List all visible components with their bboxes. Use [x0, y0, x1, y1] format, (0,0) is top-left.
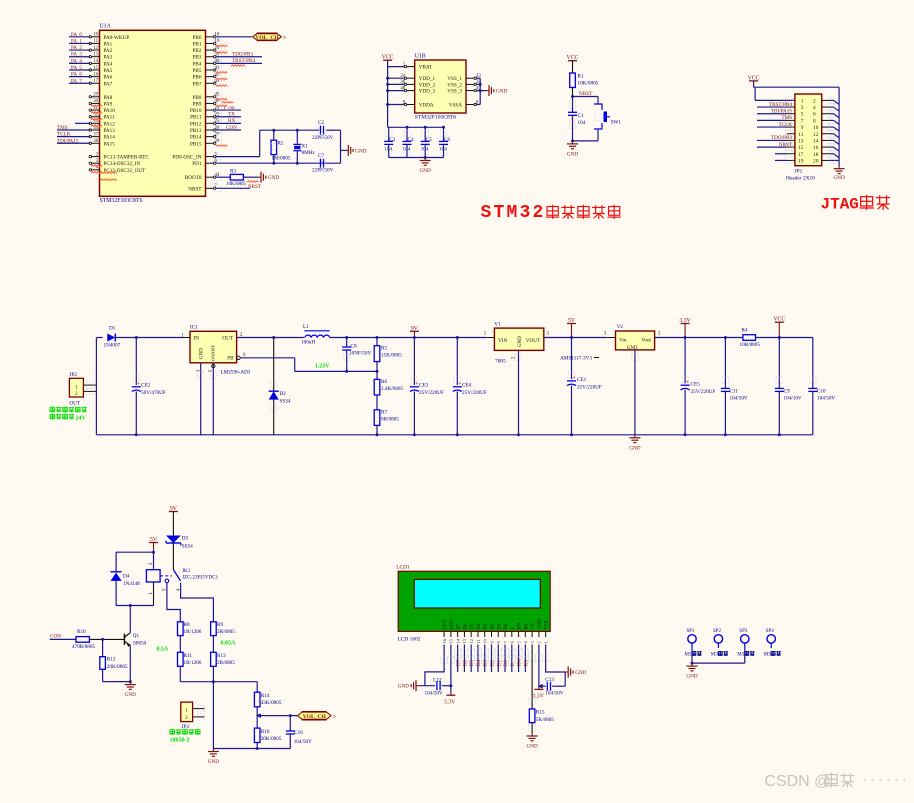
svg-text:10K/0805: 10K/0805: [226, 182, 247, 187]
svg-text:PB15: PB15: [190, 141, 202, 147]
svg-text:38: 38: [93, 139, 98, 144]
svg-text:R13: R13: [217, 653, 226, 659]
svg-text:GND: GND: [355, 148, 366, 154]
svg-text:STM32F103C8T6: STM32F103C8T6: [100, 198, 143, 204]
svg-text:104: 104: [578, 120, 586, 126]
svg-text:L1: L1: [303, 324, 309, 330]
svg-text:Vout: Vout: [641, 338, 651, 344]
svg-text:SS54: SS54: [182, 544, 193, 550]
svg-text:25V/220UF: 25V/220UF: [419, 390, 444, 396]
svg-text:TDI/PA15: TDI/PA15: [57, 138, 79, 144]
svg-text:13: 13: [798, 138, 804, 144]
svg-text:GND: GND: [208, 759, 219, 765]
svg-text:104: 104: [384, 147, 392, 153]
svg-text:10NF/50V: 10NF/50V: [349, 351, 371, 357]
svg-text:VCC: VCC: [773, 317, 785, 323]
svg-text:10: 10: [813, 125, 819, 131]
svg-text:25V/220UF: 25V/220UF: [462, 390, 487, 396]
svg-text:14: 14: [813, 138, 819, 144]
svg-text:LCD1: LCD1: [396, 565, 410, 571]
svg-text:GND: GND: [518, 336, 523, 347]
svg-text:SP4: SP4: [766, 629, 775, 634]
svg-text:PA3: PA3: [104, 55, 113, 61]
svg-text:C6: C6: [444, 137, 450, 143]
svg-text:1M/0805: 1M/0805: [272, 156, 291, 162]
svg-text:PA12: PA12: [104, 121, 116, 127]
svg-text:Header 2X10: Header 2X10: [786, 176, 815, 182]
svg-text:R2: R2: [278, 141, 284, 147]
svg-text:LCD 1602: LCD 1602: [398, 636, 421, 642]
svg-text:104/50V: 104/50V: [425, 690, 443, 696]
svg-text:LED+: LED+: [450, 617, 455, 629]
svg-text:SP1: SP1: [687, 629, 696, 634]
svg-text:U1B: U1B: [415, 54, 426, 60]
svg-text:R16: R16: [261, 729, 270, 735]
svg-text:RW: RW: [518, 622, 523, 630]
svg-text:25V/220UF: 25V/220UF: [691, 389, 716, 395]
svg-text:JTAG: JTAG: [821, 196, 859, 214]
svg-text:SW1: SW1: [611, 120, 622, 126]
svg-text:M3: M3: [764, 653, 771, 658]
svg-text:3.3V: 3.3V: [444, 699, 456, 705]
svg-text:C16: C16: [294, 730, 303, 736]
svg-text:14: 14: [93, 59, 98, 64]
svg-text:GND: GND: [496, 89, 507, 95]
svg-text:0R/0805: 0R/0805: [381, 417, 399, 423]
svg-text:6: 6: [813, 112, 816, 118]
svg-text:1R/1206: 1R/1206: [184, 629, 202, 635]
svg-text:PA5: PA5: [104, 68, 113, 74]
svg-text:C8: C8: [351, 344, 357, 350]
svg-text:C10: C10: [817, 389, 826, 395]
svg-text:D6: D6: [463, 623, 468, 629]
svg-text:NRST: NRST: [779, 142, 793, 148]
svg-text:CE3: CE3: [419, 383, 429, 389]
svg-text:PB7: PB7: [193, 81, 202, 87]
svg-text:PA_0: PA_0: [71, 33, 82, 38]
svg-text:3: 3: [801, 105, 804, 111]
svg-text:Q1: Q1: [133, 633, 140, 639]
svg-text:104: 104: [421, 147, 429, 153]
svg-text:M3: M3: [685, 653, 692, 658]
svg-text:PA_4: PA_4: [71, 59, 82, 64]
svg-text:PB2: PB2: [193, 48, 202, 54]
svg-text:104/50V: 104/50V: [545, 691, 563, 697]
svg-text:D2: D2: [490, 623, 495, 629]
svg-text:D3: D3: [484, 623, 489, 629]
svg-text:11: 11: [798, 132, 803, 138]
svg-text:C12: C12: [433, 677, 442, 683]
svg-text:43K/0805: 43K/0805: [261, 700, 282, 706]
svg-text:GND: GND: [125, 692, 136, 698]
svg-text:D1: D1: [497, 623, 502, 629]
svg-text:D1: D1: [109, 326, 116, 332]
svg-text:11: 11: [93, 39, 98, 44]
svg-text:10: 10: [93, 33, 98, 38]
svg-text:>: >: [333, 714, 337, 720]
svg-text:PA13: PA13: [104, 128, 116, 134]
svg-text:CE4: CE4: [462, 383, 472, 389]
svg-text:19: 19: [798, 158, 804, 164]
svg-text:TDI/PA15: TDI/PA15: [771, 109, 793, 115]
svg-text:PA_3: PA_3: [71, 53, 82, 58]
svg-text:PD0-OSC_IN: PD0-OSC_IN: [172, 155, 201, 161]
svg-text:TDO/PB3: TDO/PB3: [771, 135, 792, 141]
svg-text:VBAT: VBAT: [419, 65, 433, 71]
svg-text:VDD_2: VDD_2: [419, 82, 436, 88]
svg-text:C13: C13: [545, 677, 554, 683]
svg-text:PC13-TAMPER-RTC: PC13-TAMPER-RTC: [104, 155, 150, 161]
svg-text:C11: C11: [730, 389, 739, 395]
svg-text:7805: 7805: [495, 359, 506, 365]
svg-text:29: 29: [93, 93, 98, 98]
svg-text:PB4: PB4: [193, 61, 202, 67]
svg-text:100uH: 100uH: [301, 340, 315, 346]
svg-text:1.23V: 1.23V: [315, 363, 331, 369]
svg-text:10K/0805: 10K/0805: [578, 81, 599, 87]
svg-text:16: 16: [813, 145, 819, 151]
svg-text:PA10: PA10: [104, 108, 116, 114]
svg-text:12: 12: [813, 132, 819, 138]
svg-text:C9: C9: [784, 389, 790, 395]
svg-text:7: 7: [801, 118, 804, 124]
svg-text:2R/0805: 2R/0805: [217, 660, 235, 666]
svg-text:104/16V: 104/16V: [784, 396, 802, 402]
svg-text:12: 12: [469, 639, 474, 643]
svg-text:3.3V: 3.3V: [533, 694, 545, 700]
svg-text:PA14: PA14: [104, 135, 116, 141]
svg-text:24V: 24V: [76, 415, 87, 421]
svg-text:STM32: STM32: [481, 203, 546, 223]
svg-text:PB8: PB8: [193, 95, 202, 101]
svg-text:1N4007: 1N4007: [104, 343, 121, 349]
svg-text:1R/1206: 1R/1206: [184, 660, 202, 666]
svg-text:AMS1117-3V3: AMS1117-3V3: [560, 356, 592, 362]
svg-text:20K/0805: 20K/0805: [107, 664, 128, 670]
svg-text:CON: CON: [226, 125, 237, 131]
svg-text:2: 2: [813, 98, 816, 104]
svg-text:1: 1: [543, 641, 548, 643]
svg-text:R5: R5: [381, 346, 387, 352]
svg-text:PB1: PB1: [193, 41, 202, 47]
svg-text:TCLK: TCLK: [57, 132, 71, 138]
svg-text:9V: 9V: [170, 506, 178, 512]
svg-text:104/50V: 104/50V: [294, 739, 312, 745]
svg-text:V2: V2: [617, 324, 624, 330]
svg-text:GND: GND: [420, 168, 431, 174]
svg-text:D3: D3: [182, 536, 189, 542]
svg-text:TCLK: TCLK: [778, 122, 792, 128]
svg-text:16: 16: [93, 72, 98, 77]
svg-text:9: 9: [801, 125, 804, 131]
svg-text:C5: C5: [426, 137, 432, 143]
svg-text:PA11: PA11: [104, 115, 116, 121]
svg-text:GND: GND: [526, 744, 537, 750]
svg-text:PA_6: PA_6: [71, 73, 82, 78]
svg-text:SP2: SP2: [713, 629, 722, 634]
svg-text:PA6: PA6: [104, 75, 113, 81]
svg-text:VCC: VCC: [748, 75, 760, 81]
svg-text:RS: RS: [524, 623, 529, 629]
svg-text:LED-: LED-: [443, 618, 448, 629]
svg-text:PB9: PB9: [193, 101, 202, 107]
svg-text:D0: D0: [504, 623, 509, 629]
svg-text:VSS: VSS: [545, 620, 550, 629]
svg-text:GND: GND: [200, 348, 205, 359]
svg-text:PC14-OSC32_IN: PC14-OSC32_IN: [104, 161, 141, 167]
svg-text:GND: GND: [567, 151, 578, 157]
svg-text:VDD: VDD: [538, 619, 543, 630]
svg-text:VSS_2: VSS_2: [447, 82, 462, 88]
svg-text:PA4: PA4: [104, 61, 113, 67]
svg-text:3.3V: 3.3V: [679, 318, 691, 324]
svg-text:>: >: [283, 36, 287, 42]
svg-text:JP2: JP2: [69, 372, 77, 378]
svg-text:4: 4: [813, 105, 816, 111]
svg-text:D7: D7: [457, 623, 462, 629]
svg-text:Vin: Vin: [619, 338, 627, 344]
svg-text:GND: GND: [629, 445, 640, 451]
svg-text:2R/0805: 2R/0805: [217, 629, 235, 635]
svg-text:R3: R3: [230, 169, 236, 175]
svg-text:470R/0805: 470R/0805: [72, 644, 95, 650]
svg-text:C3: C3: [389, 137, 395, 143]
svg-text:PA_5: PA_5: [71, 66, 82, 71]
svg-text:BOOT0: BOOT0: [185, 175, 202, 181]
svg-text:104: 104: [403, 147, 411, 153]
svg-text:R12: R12: [107, 657, 116, 663]
svg-text:PA15: PA15: [104, 141, 116, 147]
svg-text:RX: RX: [228, 118, 235, 124]
svg-text:D2: D2: [280, 391, 287, 397]
svg-text:M3: M3: [737, 653, 744, 658]
svg-text:R7: R7: [381, 410, 387, 416]
svg-text:VCC: VCC: [567, 55, 579, 61]
svg-text:10R/0805: 10R/0805: [740, 342, 761, 348]
svg-text:VDDA: VDDA: [419, 103, 434, 109]
svg-text:CE5: CE5: [691, 382, 701, 388]
svg-text:R14: R14: [261, 693, 270, 699]
svg-text:GND: GND: [833, 175, 844, 181]
svg-text:PB11: PB11: [190, 115, 202, 121]
svg-text:PB6: PB6: [193, 75, 202, 81]
svg-text:VIN: VIN: [498, 338, 507, 344]
svg-text:PB0: PB0: [193, 35, 202, 41]
svg-text:+: +: [137, 382, 140, 387]
svg-text:NRST: NRST: [188, 186, 202, 192]
svg-text:18: 18: [813, 152, 819, 158]
svg-text:17: 17: [93, 79, 98, 84]
svg-text:R1: R1: [578, 74, 584, 80]
svg-text:1: 1: [801, 98, 804, 104]
svg-text:OUT: OUT: [222, 336, 233, 342]
svg-text:ON/OFF: ON/OFF: [211, 344, 216, 361]
svg-text:TRST/PB4: TRST/PB4: [232, 58, 255, 64]
svg-text:8: 8: [813, 118, 816, 124]
svg-text:TMS: TMS: [57, 125, 68, 131]
svg-text:LM2596-ADJ: LM2596-ADJ: [221, 370, 250, 376]
svg-text:22PF/50V: 22PF/50V: [312, 168, 334, 174]
svg-text:PA2: PA2: [104, 48, 113, 54]
svg-text:104/50V: 104/50V: [817, 396, 835, 402]
svg-text:50V/470UF: 50V/470UF: [141, 390, 166, 396]
svg-text:VSS_3: VSS_3: [447, 89, 462, 95]
svg-text:PA0-WKUP: PA0-WKUP: [104, 35, 130, 41]
svg-text:2: 2: [537, 641, 542, 643]
svg-text:R4: R4: [742, 328, 748, 334]
svg-text:8MHz: 8MHz: [302, 150, 316, 156]
svg-text:PC15-OSC32_OUT: PC15-OSC32_OUT: [104, 168, 147, 174]
svg-text:+: +: [573, 376, 576, 381]
svg-text:C1: C1: [578, 113, 584, 119]
svg-text:PA_1: PA_1: [71, 39, 82, 44]
svg-text:SS34: SS34: [280, 399, 291, 405]
svg-text:15K/0805: 15K/0805: [381, 353, 402, 359]
svg-text:IC1: IC1: [190, 325, 198, 331]
svg-text:OUT: OUT: [69, 401, 80, 407]
svg-text:STM32F103C8T6: STM32F103C8T6: [415, 115, 457, 121]
svg-text:PA9: PA9: [104, 101, 113, 107]
svg-text:V0: V0: [531, 623, 536, 629]
svg-text:PA8: PA8: [104, 95, 113, 101]
svg-text:X1: X1: [302, 144, 309, 150]
svg-text:D5: D5: [470, 623, 475, 629]
svg-text:TRST/PB4: TRST/PB4: [769, 102, 792, 108]
svg-text:VOL_CH: VOL_CH: [303, 714, 327, 720]
svg-text:20K/0805: 20K/0805: [261, 736, 282, 742]
svg-text:PB12: PB12: [190, 121, 202, 127]
svg-text:R10: R10: [77, 629, 86, 635]
svg-text:JK1: JK1: [182, 568, 191, 574]
svg-text:GND: GND: [268, 175, 279, 181]
svg-text:0.05A: 0.05A: [221, 641, 237, 647]
svg-text:GND: GND: [686, 674, 697, 680]
svg-text:22PF/50V: 22PF/50V: [312, 135, 334, 141]
svg-text:17: 17: [798, 152, 804, 158]
svg-text:FB: FB: [227, 356, 234, 362]
svg-text:20: 20: [813, 158, 819, 164]
svg-text:R8: R8: [184, 622, 190, 628]
svg-text:1N4148: 1N4148: [123, 581, 140, 587]
svg-text:TX: TX: [228, 112, 235, 118]
svg-text:5V: 5V: [150, 537, 158, 543]
svg-text:15: 15: [798, 145, 804, 151]
svg-text:R6: R6: [381, 379, 387, 385]
svg-text:M3: M3: [711, 653, 718, 658]
svg-text:VOUT: VOUT: [526, 338, 541, 344]
svg-text:······: ······: [862, 771, 910, 788]
svg-text:NRST: NRST: [248, 185, 261, 190]
svg-text:VDD_3: VDD_3: [419, 89, 436, 95]
svg-text:13: 13: [93, 53, 98, 58]
svg-text:PB5: PB5: [193, 68, 202, 74]
svg-text:CE1: CE1: [577, 377, 587, 383]
svg-text:PA1: PA1: [104, 41, 113, 47]
svg-text:GND: GND: [398, 684, 409, 690]
svg-text:0.5A: 0.5A: [156, 647, 169, 653]
svg-text:PA7: PA7: [104, 81, 113, 87]
svg-text:104/50V: 104/50V: [730, 396, 748, 402]
svg-text:JP1: JP1: [795, 169, 803, 175]
svg-text:PA_2: PA_2: [71, 46, 82, 51]
svg-text:37: 37: [93, 132, 98, 137]
svg-text:SP3: SP3: [739, 629, 748, 634]
svg-text:+: +: [458, 382, 461, 387]
svg-text:5V: 5V: [568, 318, 576, 324]
svg-text:VDD_1: VDD_1: [419, 76, 436, 82]
svg-text:9V: 9V: [411, 326, 419, 332]
svg-text:5: 5: [801, 112, 804, 118]
svg-text:IN: IN: [194, 336, 200, 342]
svg-text:TMS: TMS: [781, 115, 792, 121]
svg-text:CSDN @: CSDN @: [764, 773, 830, 790]
svg-text:5K/0805: 5K/0805: [536, 717, 555, 723]
svg-text:C7: C7: [318, 153, 324, 159]
svg-text:R9: R9: [217, 622, 223, 628]
svg-text:11: 11: [476, 639, 481, 643]
svg-text:VSS_1: VSS_1: [447, 76, 462, 82]
svg-text:RW: RW: [517, 657, 523, 666]
svg-text:PA_7: PA_7: [71, 79, 82, 84]
svg-text:CE2: CE2: [141, 383, 151, 389]
svg-text:30: 30: [93, 99, 98, 104]
svg-text:VOL_CH: VOL_CH: [255, 35, 279, 41]
svg-text:D4: D4: [123, 574, 130, 580]
svg-text:2.4K/0805: 2.4K/0805: [381, 386, 403, 392]
svg-text:PB14: PB14: [190, 135, 202, 141]
svg-text:25V/220UF: 25V/220UF: [577, 385, 602, 391]
svg-text:PD1: PD1: [192, 161, 202, 167]
svg-text:JZC-23F(5VDC): JZC-23F(5VDC): [182, 574, 218, 581]
svg-text:R11: R11: [184, 653, 193, 659]
svg-text:PB10: PB10: [190, 108, 202, 114]
svg-text:PB3: PB3: [193, 55, 202, 61]
svg-text:U1A: U1A: [100, 24, 112, 30]
svg-text:r_cnt: r_cnt: [224, 105, 235, 111]
svg-text:CON: CON: [50, 634, 61, 640]
svg-text:12: 12: [93, 46, 98, 51]
svg-text:15: 15: [93, 66, 98, 71]
svg-text:E: E: [511, 627, 516, 630]
svg-text:VSSA: VSSA: [449, 103, 463, 109]
svg-text:TDO/PB3: TDO/PB3: [232, 52, 253, 58]
svg-text:C4: C4: [408, 137, 414, 143]
svg-text:PB13: PB13: [190, 128, 202, 134]
svg-text:R15: R15: [536, 710, 545, 716]
svg-text:VCC: VCC: [382, 55, 394, 61]
svg-text:GND: GND: [575, 670, 586, 676]
svg-text:18650-2: 18650-2: [170, 738, 190, 744]
svg-text:S8050: S8050: [133, 641, 147, 647]
svg-text:GND: GND: [627, 346, 638, 351]
svg-text:D4: D4: [477, 623, 482, 629]
svg-text:V1: V1: [494, 322, 501, 328]
svg-text:104: 104: [439, 147, 447, 153]
svg-text:C2: C2: [318, 120, 324, 126]
